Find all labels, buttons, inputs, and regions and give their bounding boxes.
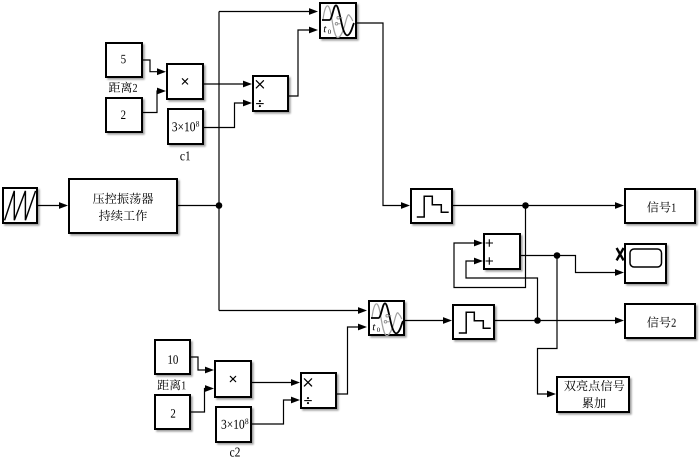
divide2 ÷ symbol — [304, 400, 312, 402]
product block upper × — [166, 63, 204, 100]
wire pulse1 node to sum input1 — [454, 206, 526, 288]
VCO text line1 压控振荡器 — [93, 193, 104, 204]
constant block 3e8 c2 — [215, 406, 252, 443]
arrowhead into sum input2 — [474, 258, 483, 265]
wire sum node to accumulator — [538, 256, 558, 395]
wire product1 to divide1 — [204, 83, 243, 85]
scope screen icon — [630, 249, 662, 267]
product2 × symbol — [230, 376, 235, 381]
label 2 in lower constant block — [171, 409, 175, 417]
constant block 3e8 c1 — [167, 108, 204, 145]
constant block 10 — [154, 339, 191, 375]
arrowhead into delay1 input1 — [309, 8, 318, 15]
label c1 under constant — [180, 154, 184, 160]
arrowhead into delay1 input2 — [309, 27, 318, 34]
arrowhead into sum input1 — [474, 240, 483, 247]
arrowhead into product1 input1 — [157, 68, 166, 75]
product block lower × — [214, 360, 252, 398]
arrowhead into delay2 input2 — [358, 324, 367, 331]
wire product2 to divide2 — [252, 382, 291, 384]
variable transport delay icon 1 — [322, 5, 354, 37]
arrowhead into scope — [615, 269, 624, 276]
output block 信号2 — [624, 303, 696, 339]
sawtooth icon in source block — [5, 191, 36, 220]
wire node to delay1 input1 — [219, 11, 309, 13]
divide2 × symbol — [304, 379, 311, 386]
arrowhead into signal2 — [615, 317, 624, 324]
wire source to VCO — [38, 205, 66, 207]
delay2 icon black input sine — [371, 303, 403, 333]
junction dot on pulse2 output — [534, 317, 541, 324]
variable transport delay block upper — [319, 2, 357, 39]
arrowhead into delay2 input1 — [358, 307, 367, 314]
VCO text line2 持续工作 — [99, 210, 110, 221]
accumulator text line1 双亮点信号 — [564, 381, 575, 392]
wire c1 to divide1 — [204, 103, 243, 128]
arrowhead into VCO — [59, 202, 68, 209]
output block 信号1 — [624, 188, 696, 224]
delay2 icon shift markers — [384, 315, 391, 324]
label 信号1 text — [647, 201, 658, 212]
source block (sawtooth generator) — [2, 187, 38, 224]
wire delay2 to pulse2 — [405, 320, 443, 322]
arrowhead into divide2 input2 — [291, 397, 300, 404]
sum + symbol input1 — [486, 239, 493, 246]
pulse shaper block upper — [410, 188, 453, 224]
wire constant2 to product1 — [143, 91, 158, 113]
sum block — [483, 233, 521, 270]
constant block 2 upper — [105, 97, 143, 133]
scope block — [624, 243, 667, 284]
scope input X mark — [617, 248, 624, 260]
label 距离1 under constant 10 — [158, 380, 169, 390]
pulse1 staircase icon — [417, 196, 449, 217]
wire constant5 to product1 — [143, 60, 157, 72]
VCO block 压控振荡器持续工作 — [68, 178, 178, 234]
label 信号2 text — [647, 316, 658, 327]
wire delay1 to pulse1 — [357, 23, 401, 206]
junction dot at VCO output node — [216, 202, 223, 209]
arrowhead into divide1 input1 — [243, 81, 252, 88]
delay1 icon black input sine — [322, 5, 354, 35]
pulse2 staircase icon — [459, 312, 491, 333]
junction dot on sum output — [554, 252, 561, 259]
product1 × symbol — [182, 79, 187, 84]
arrowhead into accumulator — [547, 391, 556, 398]
arrowhead into product2 input2 — [205, 385, 214, 392]
label 10 in constant block — [168, 355, 172, 363]
wire pulse2 to signal2 — [495, 320, 615, 322]
wire constant2L to product2 — [191, 389, 205, 413]
arrowhead into divide1 input2 — [243, 100, 252, 107]
accumulator text line2 累加 — [582, 397, 593, 408]
divide1 ÷ symbol — [256, 103, 264, 105]
divide1 × symbol — [256, 81, 263, 88]
variable transport delay icon 2 — [371, 303, 403, 335]
wire constant10 to product2 — [191, 357, 205, 370]
arrowhead into signal1 — [615, 202, 624, 209]
variable transport delay block lower — [368, 300, 405, 336]
arrowhead into product2 input1 — [205, 367, 214, 374]
wire sum node to scope — [557, 256, 615, 273]
label 3×10^8 in c1 block — [172, 122, 177, 131]
divide block lower — [300, 372, 337, 409]
constant block 2 lower — [154, 394, 191, 430]
junction dot on pulse1 output — [522, 202, 529, 209]
wire divide2 to delay2 input2 — [337, 327, 359, 394]
wire c2 to divide2 — [252, 400, 291, 424]
wire VCO output to node — [178, 205, 219, 207]
delay1 icon gray delayed sine — [323, 6, 353, 38]
wire pulse2 node to sum input2 — [466, 261, 538, 321]
label 5 in constant block — [121, 55, 125, 64]
wire main vertical node line — [218, 12, 220, 311]
wire divide1 to delay1 input2 — [289, 30, 310, 96]
sum + symbol input2 — [486, 257, 493, 264]
constant block 5 — [105, 42, 143, 78]
wire node to delay2 input1 — [219, 310, 358, 312]
delay2 icon t0 label — [373, 324, 380, 332]
label 距离2 under constant 5 — [109, 82, 120, 92]
accumulator block 双亮点信号累加 — [556, 376, 630, 413]
arrowhead into divide2 input1 — [291, 379, 300, 386]
delay2 icon gray delayed sine — [372, 304, 402, 336]
wire sum output to node — [521, 255, 557, 257]
label c2 under constant — [230, 450, 234, 456]
delay1 icon shift markers — [335, 17, 342, 26]
arrowhead into pulse1 — [401, 202, 410, 209]
arrowhead into product1 input2 — [157, 88, 166, 95]
label 2 in upper constant block — [121, 111, 125, 119]
wire pulse1 to signal1 — [453, 205, 615, 207]
delay1 icon t0 label — [324, 26, 331, 34]
pulse shaper block lower — [452, 304, 495, 340]
divide block upper — [252, 75, 289, 112]
arrowhead into pulse2 — [443, 317, 452, 324]
label 3×10^8 in c2 block — [222, 420, 227, 429]
